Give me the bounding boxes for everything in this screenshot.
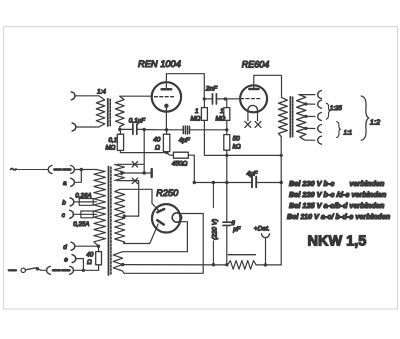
mains terminal bottom <box>9 269 16 271</box>
svg-text:b: b <box>62 200 66 207</box>
wire 50k to rail <box>226 150 228 182</box>
node secondary-bottom junction <box>118 128 121 131</box>
speaker socket tap2 <box>318 100 322 108</box>
svg-text:Bei 220 V b-c /d-e verbinden: Bei 220 V b-c /d-e verbinden <box>289 190 387 199</box>
resistor 1M right box <box>224 108 230 121</box>
resistor 40 Ohm mains box <box>96 252 102 265</box>
wire R450 to rail <box>188 155 194 182</box>
node rail-6uF <box>225 181 228 184</box>
transformer T3 core dashed bar <box>110 167 112 275</box>
resistor 40 Ohm mains stub <box>98 246 100 251</box>
transformer T2 primary winding <box>279 97 288 136</box>
svg-text:d: d <box>63 244 67 251</box>
plug bottom pins <box>53 269 69 272</box>
socket c <box>70 210 74 218</box>
fuse 0,26A <box>79 199 93 206</box>
wire c to fuse <box>73 213 81 215</box>
node switch contact <box>36 267 39 270</box>
transformer T1 primary winding <box>96 100 104 124</box>
svg-text:REN 1004: REN 1004 <box>138 59 181 69</box>
node tap2 <box>304 102 307 105</box>
capacitor 4uF electrolytic <box>183 126 189 134</box>
svg-text:0,25A: 0,25A <box>73 221 89 228</box>
node bias-right <box>280 154 283 157</box>
input socket bottom <box>72 123 76 131</box>
wire HV bottom to R250 anode2 <box>124 224 159 244</box>
wire 1M left to bias node <box>204 120 281 155</box>
wire det row <box>256 264 281 266</box>
resistor 1M left stub <box>203 99 205 108</box>
svg-text:a: a <box>63 180 67 187</box>
socket +Det <box>262 234 270 238</box>
node rail-R450 <box>193 181 196 184</box>
wire REN1004 anode to node A <box>166 74 204 99</box>
node a-junction <box>80 168 83 171</box>
tube R250 anode1 bar <box>157 209 164 212</box>
annotation 220V line top <box>212 183 214 208</box>
HV winding <box>115 189 125 243</box>
heater winding <box>114 164 124 180</box>
wire cathode row left <box>144 129 166 131</box>
transformer T1 core laminations dashed bar <box>109 99 111 125</box>
transformer T2 core dashed bar <box>292 97 294 136</box>
wire rail left <box>194 182 251 184</box>
svg-text:+Det.: +Det. <box>254 225 270 232</box>
speaker socket tap3 <box>318 113 322 121</box>
X mark filament right <box>255 121 261 127</box>
wire switch to plug <box>37 269 46 271</box>
svg-text:RE604: RE604 <box>242 59 270 69</box>
wire grid REN1004 <box>120 95 152 97</box>
wire to C1 <box>120 128 132 130</box>
svg-text:Bei 110 V a-c/ b-d-e verbinden: Bei 110 V a-c/ b-d-e verbinden <box>287 212 391 221</box>
node grid-return junction <box>143 128 146 131</box>
svg-text:2nF: 2nF <box>205 86 218 93</box>
input socket top <box>71 92 75 100</box>
svg-text:450Ω: 450Ω <box>172 161 188 168</box>
capacitor 0,1uF <box>133 125 137 135</box>
svg-text:MΩ: MΩ <box>191 115 201 122</box>
resistor 40 Ohm stub top <box>166 130 168 134</box>
wire +Det <box>265 238 267 265</box>
svg-text:MΩ: MΩ <box>216 115 226 122</box>
svg-text:MΩ: MΩ <box>106 145 116 152</box>
tube REN1004 cathode dot <box>164 104 168 108</box>
svg-text:1:4: 1:4 <box>97 89 106 96</box>
capacitor 2nF <box>213 94 217 104</box>
node tap3 <box>304 115 307 118</box>
switch pivot <box>21 268 25 272</box>
svg-text:R250: R250 <box>156 188 179 198</box>
node e-junction <box>82 269 85 272</box>
mains terminal top <box>11 169 16 170</box>
brace 1:1 <box>337 122 341 138</box>
node d-junction <box>97 245 100 248</box>
wire plug to winding <box>74 169 96 171</box>
wire 1M right to 50k <box>226 120 228 134</box>
wire 6uF bottom <box>226 226 228 265</box>
tube RE604 grid dashed <box>241 98 262 100</box>
tube RE604 anode bar <box>249 88 258 91</box>
svg-text:1:2: 1:2 <box>370 118 380 127</box>
node filament winding center tap <box>121 263 124 266</box>
resistor 450 Ohm box <box>173 152 188 158</box>
svg-text:1: 1 <box>220 108 223 115</box>
svg-text:Ω: Ω <box>87 259 92 266</box>
tube R250 anode2 bar <box>157 220 163 224</box>
capacitor 4uF rail <box>252 177 256 188</box>
node rail-right <box>280 181 283 184</box>
node tap4 <box>304 127 307 130</box>
wire right line down <box>280 183 282 265</box>
resistor 0,1M box <box>117 134 123 150</box>
switch blade <box>25 268 37 270</box>
wire 40 Ohm mains bottom <box>98 265 100 271</box>
speaker socket tap1 <box>318 91 322 99</box>
svg-text:0,1μF: 0,1μF <box>129 118 146 125</box>
svg-text:e: e <box>64 256 68 263</box>
socket a <box>71 178 75 186</box>
X mark heater bottom <box>132 178 137 183</box>
transformer T1 secondary winding <box>116 96 125 129</box>
resistor 1M left box <box>201 108 207 121</box>
svg-text:1:25: 1:25 <box>330 105 343 112</box>
transformer T2 core solid bar <box>289 97 291 137</box>
plug bottom right arc <box>70 266 74 274</box>
resistor detector zigzag <box>228 261 257 270</box>
wire 0,1M to bias row <box>120 150 166 152</box>
svg-text:4μF: 4μF <box>247 171 259 178</box>
resistor 1M right stub <box>225 99 226 108</box>
resistor 0,1M - stub <box>119 129 121 134</box>
wire R250 filament bottom <box>124 222 188 252</box>
node B junction <box>224 97 227 100</box>
wire rail right <box>257 182 281 184</box>
wire input-bottom to transformer T1 <box>76 124 105 127</box>
socket b <box>70 198 74 206</box>
svg-text:0,1: 0,1 <box>109 137 118 144</box>
tube RE604 filament arch <box>248 105 258 110</box>
wire tap1 <box>299 94 315 96</box>
wire tap5 <box>302 139 315 141</box>
capacitor 6uF <box>223 222 231 225</box>
wire tap3 <box>306 115 315 117</box>
wire T2 primary bottom down <box>280 137 282 183</box>
wire bias row <box>124 172 152 174</box>
node bias tap <box>143 171 146 174</box>
svg-text:μF: μF <box>232 226 241 233</box>
svg-text:4μF: 4μF <box>179 137 191 144</box>
annotation 220V line bottom <box>212 241 214 265</box>
wire a <box>74 170 81 183</box>
socket e <box>72 255 76 263</box>
rectifier filament winding <box>113 252 124 274</box>
X mark filament left <box>245 121 251 127</box>
node det junction <box>264 263 267 266</box>
svg-text:50: 50 <box>233 136 241 143</box>
speaker socket tap4 <box>318 125 322 133</box>
tube REN1004 envelope <box>152 82 181 111</box>
svg-text:0,26A: 0,26A <box>75 192 91 199</box>
node rail-220V <box>212 181 215 184</box>
fuse 0,25A <box>81 211 93 218</box>
wire tap4 <box>306 127 315 129</box>
X mark heater top <box>132 162 137 167</box>
node cathode-row tie <box>225 128 228 131</box>
svg-text:Bei 230 V b-c: Bei 230 V b-c <box>289 179 334 188</box>
wire HV center tap <box>124 215 139 217</box>
wire tap2 <box>306 103 315 105</box>
node 40 Ohm bottom junction <box>165 151 168 154</box>
wire b to fuse <box>74 201 79 203</box>
brace 1:25 <box>326 103 330 119</box>
wire e <box>76 259 84 271</box>
wire 6uF top <box>226 183 228 222</box>
transformer T3 primary winding <box>94 170 106 247</box>
plug bottom left arc <box>47 266 51 274</box>
wire RE604 anode to output transformer <box>254 75 282 97</box>
wire B- rail <box>122 264 227 266</box>
wire input-top to transformer T1 <box>75 96 105 100</box>
resistor detector overline <box>228 254 255 256</box>
wire RE604 grid <box>225 98 240 100</box>
svg-text:1: 1 <box>195 108 198 115</box>
wire plug to 40 Ohm <box>73 269 98 271</box>
tube R250 envelope <box>152 204 180 232</box>
node cathode row junction <box>165 128 168 131</box>
wire grid-return down <box>143 130 145 174</box>
transformer T2 secondary winding <box>297 95 306 139</box>
wire C1 to node <box>138 128 144 130</box>
resistor 40 Ohm box <box>163 134 169 151</box>
plug top left arc <box>48 166 52 174</box>
wire cathode row right <box>190 129 227 131</box>
wire C2nF to node B <box>217 98 225 100</box>
wire heater bottom with X <box>117 181 139 217</box>
svg-text:NKW 1,5: NKW 1,5 <box>308 234 367 250</box>
transformer T3 core solid bar <box>108 167 110 276</box>
svg-text:(220 V): (220 V) <box>211 219 218 240</box>
tube R250 filament circle <box>172 213 181 222</box>
node bias-50k <box>225 154 228 157</box>
svg-text:Bei 125 V a-c/b-d verbinden: Bei 125 V a-c/b-d verbinden <box>289 201 385 210</box>
chassis bar terminal <box>150 169 152 177</box>
node HV center tap <box>123 214 126 217</box>
node B- 220V <box>212 263 215 266</box>
socket d <box>71 242 75 250</box>
wire node A to C2nF <box>204 98 211 100</box>
heater center tap arrow <box>121 171 124 175</box>
svg-text:kΩ: kΩ <box>233 143 241 150</box>
wire fuse b to winding <box>93 201 96 203</box>
tube REN1004 grid dashed <box>154 96 173 98</box>
wire 40 Ohm bottom <box>166 152 168 153</box>
wire fuse c to winding <box>93 213 96 215</box>
speaker socket tap5 <box>318 136 322 144</box>
tube RE604 filament legs <box>248 110 258 121</box>
brace 1:2 <box>361 96 369 140</box>
svg-text:40: 40 <box>153 137 161 144</box>
wire heater top with X <box>117 163 144 165</box>
plug top pins <box>54 168 70 171</box>
node A junction <box>203 97 206 100</box>
wire to R450 <box>167 153 174 156</box>
tube RE604 envelope <box>240 85 267 112</box>
wire cathode row to C4uF <box>167 129 183 131</box>
wire HV top to R250 anode1 <box>120 189 159 210</box>
wire REN1004 cathode down <box>165 108 167 130</box>
node B- 6uF <box>225 263 228 266</box>
svg-text:verbinden: verbinden <box>350 179 385 188</box>
wire R250 filament top <box>124 214 203 274</box>
svg-text:40: 40 <box>86 252 93 259</box>
plug top right arc <box>71 166 75 174</box>
resistor 50k box <box>224 135 230 151</box>
wire d <box>75 245 99 247</box>
transformer T1 core solid bar <box>107 99 109 126</box>
svg-text:Ω: Ω <box>155 144 160 151</box>
svg-text:1:1: 1:1 <box>344 129 353 136</box>
tube REN1004 anode bar <box>162 88 172 91</box>
wire mains top <box>16 169 48 171</box>
